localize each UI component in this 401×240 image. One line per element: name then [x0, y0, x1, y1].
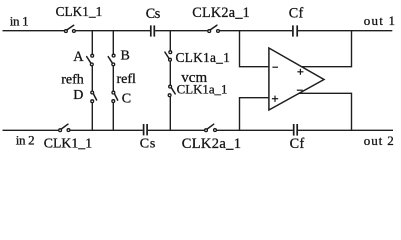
svg-text:Cs: Cs [140, 137, 156, 152]
svg-text:Cf: Cf [290, 136, 305, 152]
svg-text:CLK1_1: CLK1_1 [56, 4, 103, 19]
svg-text:out 2: out 2 [364, 133, 395, 148]
svg-text:B: B [121, 49, 130, 64]
svg-text:D: D [73, 88, 83, 103]
svg-text:in 1: in 1 [10, 14, 29, 29]
svg-text:A: A [73, 49, 84, 65]
svg-text:CLK1a_1: CLK1a_1 [177, 82, 228, 96]
svg-text:refh: refh [61, 73, 84, 88]
svg-text:CLK2a_1: CLK2a_1 [192, 5, 250, 21]
svg-text:C: C [122, 91, 131, 106]
svg-text:refl: refl [117, 72, 137, 87]
svg-text:in 2: in 2 [16, 132, 35, 147]
svg-text:Cf: Cf [289, 6, 304, 22]
svg-text:out 1: out 1 [364, 13, 396, 28]
svg-text:CLK1_1: CLK1_1 [44, 136, 92, 151]
svg-text:Cs: Cs [146, 6, 161, 22]
svg-text:CLK1a_1: CLK1a_1 [176, 50, 231, 65]
svg-text:CLK2a_1: CLK2a_1 [182, 136, 242, 152]
